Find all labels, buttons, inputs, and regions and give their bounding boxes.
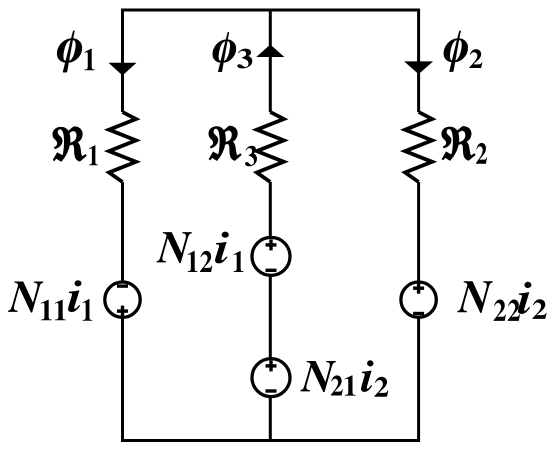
source U1 minus terminal xyxy=(117,284,128,287)
resistor (reluctance) R1 xyxy=(109,112,136,182)
source U4 minus terminal xyxy=(413,312,424,315)
label R1 (reluctance) xyxy=(53,127,98,165)
label R3 (reluctance) xyxy=(209,126,257,166)
MMF source U3 (N21 i2) circle xyxy=(252,359,290,397)
source U4 plus terminal xyxy=(413,283,424,294)
wire: middle branch segment between sources xyxy=(269,276,272,359)
MMF source U2 (N12 i1) circle xyxy=(252,237,290,275)
label N11 i1 xyxy=(8,280,92,321)
wire: top horizontal bus xyxy=(121,9,420,12)
label phi3 xyxy=(213,32,253,72)
MMF source U1 (N11 i1) circle xyxy=(105,282,140,317)
MMF source U4 (N22 i2) circle xyxy=(401,282,436,317)
label N12 i1 xyxy=(157,232,244,272)
label phi1 xyxy=(57,31,94,72)
wire: middle branch segment above source N12i1 xyxy=(269,182,272,238)
resistor (reluctance) R3 xyxy=(257,112,284,182)
source U3 plus terminal xyxy=(266,360,277,371)
wire: right branch upper segment xyxy=(417,9,420,113)
flux arrow phi1 (down) xyxy=(109,63,137,76)
wire: left branch middle segment xyxy=(121,182,124,282)
wire: right branch middle segment xyxy=(417,182,420,282)
wire: left branch lower segment xyxy=(121,317,124,442)
label N21 i2 xyxy=(301,360,389,396)
wire: left branch upper segment xyxy=(121,9,124,113)
source U3 minus terminal xyxy=(266,389,277,392)
resistor (reluctance) R2 xyxy=(405,112,432,182)
source U1 plus terminal xyxy=(117,306,128,317)
wire: middle branch upper segment xyxy=(269,9,272,113)
source U2 plus terminal xyxy=(266,239,277,250)
flux arrow phi2 (down) xyxy=(404,61,433,74)
source U2 minus terminal xyxy=(266,269,277,272)
flux arrow phi3 (up) xyxy=(256,45,284,58)
label phi2 xyxy=(444,31,483,72)
wire: right branch lower segment xyxy=(417,317,420,442)
wire: bottom horizontal bus xyxy=(121,439,420,442)
label R2 (reluctance) xyxy=(442,127,487,164)
label N22 i2 xyxy=(457,281,546,321)
wire: middle branch lower segment xyxy=(269,396,272,442)
